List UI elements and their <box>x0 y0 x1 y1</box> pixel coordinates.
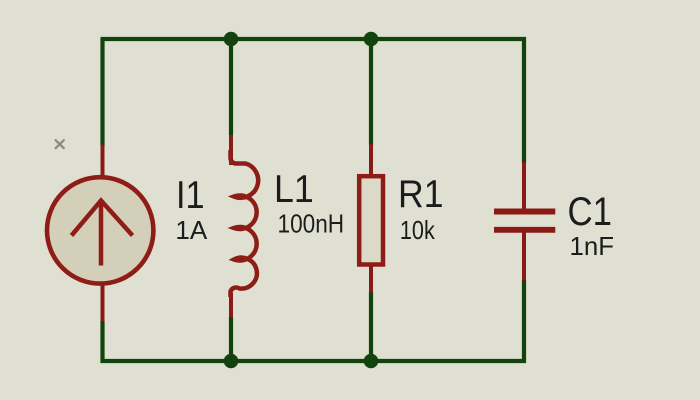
svg-text:1A: 1A <box>175 215 207 245</box>
wire: L1 branch top green <box>229 39 233 135</box>
svg-text:1nF: 1nF <box>570 233 614 261</box>
wire: L1 branch bottom green <box>229 317 233 361</box>
svg-text:I1: I1 <box>176 174 205 217</box>
node junction dot top-left (L1 top node) <box>224 32 239 47</box>
svg-text:R1: R1 <box>398 173 444 216</box>
wire: left vertical bottom segment <box>100 321 104 363</box>
capacitor C1 top plate <box>494 209 555 215</box>
wire: R1 branch bottom green <box>369 292 373 361</box>
svg-text:L1: L1 <box>274 168 314 211</box>
pin: C1 bottom lead <box>522 232 526 281</box>
current source I1 arrow shaft <box>99 202 104 266</box>
wire: right vertical top segment <box>522 37 526 163</box>
node junction dot bottom-right (R1 bottom node) <box>364 354 379 369</box>
node junction dot bottom-left (L1 bottom node) <box>224 354 239 369</box>
current source I1 arrow head <box>72 201 133 236</box>
svg-text:C1: C1 <box>568 190 613 234</box>
svg-text:100nH: 100nH <box>278 208 345 238</box>
wire: R1 branch top green <box>369 39 373 145</box>
origin marker x <box>56 140 64 148</box>
wire: top right horizontal (R1 to C1) <box>371 37 526 41</box>
current source I1 body circle <box>47 177 153 283</box>
resistor R1 body box <box>359 176 383 264</box>
pin: L1 top lead <box>229 135 233 165</box>
wire: right vertical bottom segment <box>522 280 526 364</box>
wire: bottom left horizontal (L1 to I1) <box>101 359 232 363</box>
pin: R1 bottom lead <box>369 264 373 293</box>
capacitor C1 bottom plate <box>494 227 555 233</box>
wire: bottom middle horizontal (R1 to L1) <box>231 359 371 363</box>
wire: top middle horizontal (L1 to R1) <box>231 37 371 41</box>
pin: L1 bottom lead <box>229 293 233 317</box>
wire: top left horizontal (node to L1) <box>101 37 232 41</box>
pin: I1 bottom lead <box>101 283 105 321</box>
node junction dot top-right (R1 top node) <box>364 32 379 47</box>
pin: R1 top lead <box>369 144 373 178</box>
wire: left vertical top segment <box>100 39 104 146</box>
svg-text:10k: 10k <box>400 215 436 245</box>
wire: bottom right horizontal (C1 to R1) <box>371 359 526 363</box>
inductor L1 coil <box>231 150 259 297</box>
pin: I1 top lead <box>101 145 105 180</box>
pin: C1 top lead <box>522 162 526 210</box>
